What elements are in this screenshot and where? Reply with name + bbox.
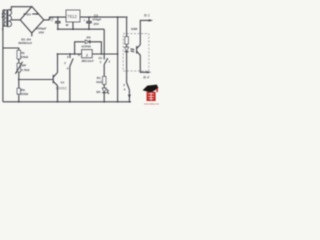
node: 7812 gnd (72, 28, 74, 30)
wire: emitter down (57, 86, 59, 102)
diode D5 symbol (85, 40, 89, 44)
svg-text:4.7kΩ: 4.7kΩ (21, 68, 30, 72)
LED in SSR (125, 47, 129, 51)
relay contact B (pins 1) (104, 58, 108, 64)
wire: secondary top to bridge top vertex (9, 7, 32, 10)
wire: divider feed elbow (3, 48, 19, 50)
relay coil J box (82, 50, 93, 58)
svg-text:www.dzdiy.com: www.dzdiy.com (144, 104, 159, 106)
svg-text:C1: C1 (50, 17, 54, 21)
svg-text:J: J (86, 53, 88, 57)
svg-text:7812: 7812 (67, 14, 77, 19)
svg-text:25V: 25V (93, 22, 99, 26)
node: riser top (57, 53, 59, 55)
svg-text:150Ω: 150Ω (21, 92, 29, 96)
wire: collector riser (57, 54, 59, 73)
resistor Rb (17, 88, 21, 94)
svg-text:J: J (108, 59, 110, 63)
node: Rb rail (18, 101, 20, 103)
svg-text:IN4001x4: IN4001x4 (18, 41, 32, 45)
wire: right vertical from mid rail down to relay line (103, 29, 105, 59)
SSR dashed box (123, 34, 149, 71)
svg-text:+: + (83, 18, 85, 22)
resistor RP (adjustable) (17, 63, 21, 72)
wire: ground mid rail (58, 28, 104, 30)
svg-text:1kΩ: 1kΩ (96, 80, 102, 84)
capacitor C2 (86, 17, 92, 29)
node: C2 bottom (88, 28, 90, 30)
AC input ticks (2, 13, 5, 18)
node: base tap (18, 79, 20, 81)
svg-text:2CP30: 2CP30 (81, 45, 91, 49)
wire: R1 to D6 (103, 84, 105, 88)
bridge rectifier D1-D4 diamond (20, 7, 44, 34)
svg-text:15kΩ: 15kΩ (21, 55, 29, 59)
svg-text:V1: V1 (61, 81, 65, 85)
wire: bridge bottom stub (31, 33, 33, 36)
wire: base wire (19, 79, 53, 81)
svg-text:25V: 25V (39, 30, 45, 34)
node: C2 top (88, 16, 90, 18)
svg-text:3: 3 (67, 55, 69, 59)
wire: Rb to rail (18, 94, 20, 102)
wire: D6 to rail (103, 93, 105, 102)
svg-text:JRC19-F: JRC19-F (81, 59, 94, 63)
node: C1 bottom (57, 28, 59, 30)
diode D4 label with arrow inside bridge (24, 12, 40, 16)
node: D5 loop left (74, 53, 76, 55)
node: C1 top (57, 16, 59, 18)
wire: photo emitter down to B-4 arrow (140, 55, 147, 72)
svg-text:8: 8 (78, 53, 80, 57)
resistor R1 (103, 76, 107, 84)
node: coil line x118 (117, 53, 119, 55)
wire: Rt to RP (18, 59, 20, 63)
wire: bottom rail (3, 101, 131, 103)
resistor Rt (17, 50, 21, 59)
svg-text:2: 2 (123, 83, 125, 87)
wire: left edge vertical (2, 10, 4, 102)
svg-text:B-1: B-1 (144, 13, 150, 17)
svg-text:D5: D5 (87, 36, 91, 40)
svg-text:M: M (66, 23, 69, 27)
svg-text:D4: D4 (27, 12, 31, 16)
wire: 7812 ground pin (72, 22, 74, 29)
svg-text:B-4: B-4 (143, 76, 149, 80)
logo (bottom right) (143, 85, 159, 106)
regulator U1 7812 (66, 10, 80, 22)
capacitor C1 (55, 17, 61, 29)
diode D5 loop (75, 42, 85, 54)
wire: photo collector up to B-1 arrow (140, 20, 149, 44)
node: x118/rail (117, 101, 119, 103)
wire: vertical x118 from top rail to bottom rail (117, 17, 119, 102)
phototransistor in SSR (137, 45, 141, 56)
node: D6/rail (103, 101, 105, 103)
relay contact A (pins 3,4) (69, 54, 71, 58)
relay contact C (127, 83, 130, 90)
wire: rail into SSR resistor (126, 17, 128, 36)
svg-text:J: J (64, 61, 66, 65)
svg-text:D6: D6 (96, 90, 100, 94)
svg-text:4: 4 (67, 66, 69, 70)
wire: secondary to bridge left vertex (11, 19, 20, 21)
wire: LED cathode out of SSR down (126, 52, 128, 83)
node: top rail to SSR riser (117, 16, 119, 18)
svg-text:4: 4 (124, 87, 126, 91)
resistor R (in SSR) (125, 37, 129, 45)
node: D5 loop right (101, 53, 103, 55)
node: contact A top (69, 53, 71, 55)
wire: primary top stub (3, 9, 6, 11)
node: rail to SSR resistor (126, 16, 128, 18)
wire: R to LED (126, 44, 128, 47)
svg-text:SSR: SSR (131, 27, 138, 31)
transformer T (4, 9, 11, 27)
wire: bridge right vertex to top rail jog (44, 17, 50, 20)
transistor V1 (53, 73, 57, 86)
wire: primary bottom stub (3, 25, 6, 27)
wire: +V top rail (49, 16, 125, 18)
node: contactA/rail (69, 101, 71, 103)
node: emitter/rail (57, 101, 59, 103)
wire: RP to tap (18, 72, 20, 88)
LED D6 (102, 88, 106, 92)
svg-text:1: 1 (100, 60, 102, 64)
wire: relay coil line (58, 53, 118, 55)
